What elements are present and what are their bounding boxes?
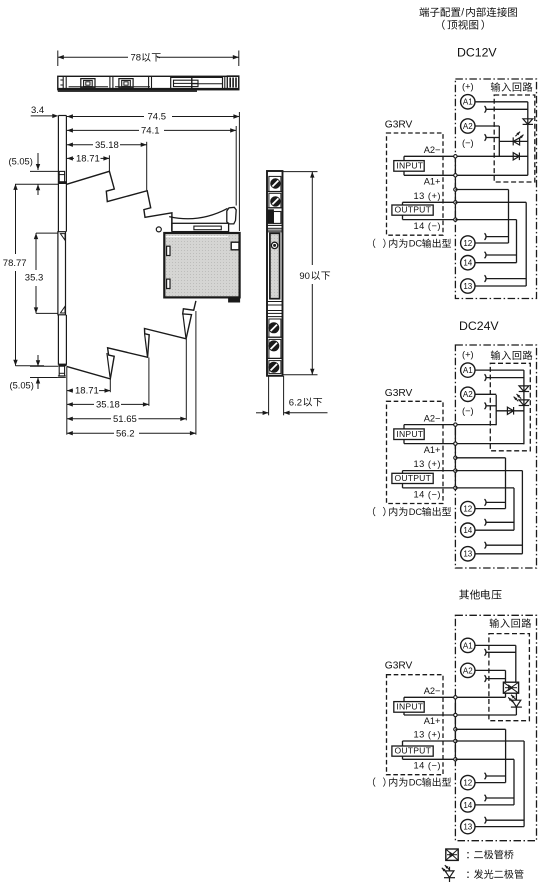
- junction dot: [454, 469, 457, 472]
- INPUT box: [394, 429, 424, 440]
- G3RV relay dashed box: [387, 675, 444, 775]
- junction dot: [454, 423, 457, 426]
- svg-text:A2: A2: [463, 666, 473, 675]
- svg-text:G3RV: G3RV: [385, 120, 413, 131]
- relay pin contact at terminal 13: [485, 542, 487, 549]
- svg-text:13 (+): 13 (+): [413, 730, 441, 740]
- svg-text:(−): (−): [462, 138, 474, 148]
- terminal 14: [461, 798, 475, 812]
- OUTPUT top lead: [402, 471, 404, 474]
- relay pin contact at terminal 14: [485, 252, 487, 259]
- relay pin contact at terminal 14: [485, 795, 487, 802]
- wire 13+: [403, 201, 456, 203]
- svg-text:35.3: 35.3: [25, 272, 44, 283]
- terminal A1: [461, 95, 475, 109]
- wire A1+: [404, 174, 455, 176]
- svg-text:A2−: A2−: [424, 145, 441, 155]
- G3RV relay dashed box: [387, 401, 444, 503]
- OUTPUT box: [392, 746, 433, 756]
- left vertical wire: [498, 126, 500, 156]
- dim 78.77: [3, 184, 58, 366]
- note: ( ) = DC output type: [373, 239, 451, 249]
- diode D2 (on A2- wire): [513, 153, 519, 160]
- wire A1 to circuit: [475, 101, 528, 103]
- junction dot: [454, 739, 457, 742]
- wire 14-: [403, 487, 456, 489]
- OUTPUT top lead: [402, 741, 404, 746]
- dim 74.1: [67, 126, 236, 206]
- diode D1: [519, 386, 529, 392]
- INPUT bottom lead: [403, 171, 405, 175]
- svg-text:A1+: A1+: [424, 445, 441, 455]
- svg-text:13: 13: [463, 550, 472, 559]
- svg-text:DC12V: DC12V: [457, 46, 497, 60]
- wire A2- into circuit: [455, 155, 527, 157]
- staircase inner riser lines: [107, 353, 110, 378]
- terminal 12: [461, 236, 475, 250]
- junction dot: [454, 155, 457, 158]
- contact wire 12: [486, 501, 506, 503]
- wire A1 to circuit: [475, 369, 524, 371]
- junction dot: [454, 758, 457, 761]
- svg-text:DC24V: DC24V: [459, 319, 499, 333]
- relay pin contact at terminal 13: [485, 817, 487, 824]
- svg-text:13: 13: [463, 282, 472, 291]
- svg-text:74.5: 74.5: [148, 112, 167, 123]
- wire 13+: [403, 470, 456, 472]
- svg-text:A1: A1: [463, 641, 473, 650]
- wire bus to terminal 12: [455, 728, 505, 730]
- terminal 12: [461, 501, 475, 515]
- terminal A2: [461, 387, 475, 401]
- wire bus to terminal 13: [455, 740, 524, 742]
- terminal 13: [461, 819, 475, 833]
- INPUT top lead: [403, 425, 405, 429]
- legend text: light emitting diode: [467, 869, 523, 878]
- wire LED to A1+: [515, 707, 517, 715]
- svg-text:OUTPUT: OUTPUT: [395, 473, 432, 483]
- bus line on box edge: [454, 425, 456, 488]
- svg-text:OUTPUT: OUTPUT: [395, 205, 432, 215]
- dim 18.71 upper: [67, 154, 110, 172]
- dim 3.4 plate thickness: [31, 105, 59, 118]
- relay pin contact at terminal 12: [485, 499, 487, 506]
- INPUT bottom lead: [403, 440, 405, 444]
- svg-text:A1+: A1+: [424, 716, 441, 726]
- relay pin contact for A1: [485, 649, 487, 656]
- dim 6.2 max: [256, 376, 328, 416]
- input circuit inner box (dashed) 输入回路: [490, 351, 532, 451]
- relay latch lever: [169, 207, 236, 231]
- upper terminal staircase: [67, 171, 172, 230]
- A2 branch vertical: [505, 670, 507, 682]
- svg-text:DC: DC: [409, 239, 423, 249]
- OUTPUT box: [392, 473, 433, 483]
- LED (horizontal, cathode left): [513, 132, 523, 146]
- svg-text:DC: DC: [409, 778, 423, 788]
- terminal 14: [461, 523, 475, 537]
- svg-text:14: 14: [463, 801, 472, 810]
- terminal A2: [461, 663, 475, 677]
- wire A1 contact: [486, 108, 528, 110]
- wire A1+: [404, 443, 455, 445]
- screw hole: [156, 227, 161, 232]
- svg-text:G3RV: G3RV: [385, 661, 413, 672]
- dim 56.2 lower: [67, 311, 196, 439]
- svg-text:(5.05): (5.05): [10, 381, 34, 391]
- wire A2 contact: [486, 137, 500, 139]
- terminal 13 wire: [475, 826, 524, 828]
- contact wire 13: [486, 278, 527, 280]
- relay pin contact at terminal 12: [485, 773, 487, 780]
- dim 35.18 upper: [67, 140, 147, 190]
- bus line on box edge: [454, 697, 456, 759]
- DIN rail plate: [58, 116, 67, 378]
- svg-text:12: 12: [463, 239, 472, 248]
- svg-text:INPUT: INPUT: [396, 702, 423, 712]
- terminal 14 wire: [475, 529, 514, 531]
- INPUT top lead: [403, 156, 405, 160]
- dim 90 max: [283, 172, 330, 375]
- input circuit inner box (dashed) 输入回路: [489, 618, 531, 720]
- svg-text:6.2: 6.2: [289, 397, 302, 408]
- DC12V outer terminal box (dash-dot): [455, 79, 536, 299]
- input circuit inner box (dashed) 输入回路: [491, 82, 535, 182]
- svg-text:13: 13: [463, 823, 472, 832]
- latch block (black): [267, 210, 283, 232]
- svg-text:18.71: 18.71: [76, 154, 100, 165]
- wire A1 contact: [486, 377, 524, 379]
- svg-text:13 (+): 13 (+): [413, 191, 441, 201]
- front view body: [267, 171, 283, 376]
- wire bus to terminal 14: [455, 219, 516, 221]
- terminal 12: [461, 775, 475, 789]
- junction dot: [454, 713, 457, 716]
- wire A2 to circuit: [475, 125, 499, 127]
- svg-text:18.71: 18.71: [75, 386, 99, 397]
- relay pin contact for A1: [485, 374, 487, 381]
- contact wire 14: [486, 797, 514, 799]
- svg-text:35.18: 35.18: [95, 140, 119, 151]
- svg-text:DC: DC: [409, 507, 423, 517]
- wire bridge to A2-: [505, 693, 507, 697]
- terminal 13: [461, 279, 475, 293]
- terminal 14 wire: [475, 262, 517, 264]
- right vertical wire: [523, 370, 525, 444]
- wire bus to terminal 12: [455, 189, 508, 191]
- svg-text:(−): (−): [462, 406, 474, 416]
- A1 branch vertical: [515, 645, 517, 682]
- legend: diode bridge symbol: [446, 849, 458, 860]
- dim 78 max: [58, 51, 239, 67]
- svg-text:14 (−): 14 (−): [413, 761, 441, 771]
- title: terminal arrangement / internal connections (top view): [419, 7, 516, 30]
- svg-text:(+): (+): [462, 350, 474, 360]
- terminal 12 wire: [475, 508, 506, 510]
- screw A1: [271, 179, 280, 188]
- junction dot: [454, 174, 457, 177]
- svg-text:A2−: A2−: [424, 686, 441, 696]
- INPUT box: [394, 161, 424, 172]
- svg-text:14: 14: [463, 259, 472, 268]
- wire bus to terminal 13: [455, 470, 522, 472]
- junction dot: [454, 486, 457, 489]
- svg-text:90: 90: [299, 271, 310, 282]
- svg-text:35.18: 35.18: [96, 400, 120, 411]
- dim 35.18 lower: [67, 358, 149, 411]
- OUTPUT box: [392, 205, 433, 215]
- svg-text:A2−: A2−: [424, 413, 441, 423]
- wire bus to terminal 14: [455, 487, 514, 489]
- contact wire 12: [486, 775, 506, 777]
- terminal 12 wire: [475, 782, 506, 784]
- diode D1 (on right vertical): [523, 119, 533, 125]
- wire A2 to circuit: [475, 393, 496, 395]
- relay pin contact for A2: [485, 134, 487, 141]
- wire bus to terminal 13: [455, 201, 526, 203]
- contact wire 14: [486, 521, 514, 523]
- terminal 14 wire: [475, 804, 514, 806]
- relay pin contact for A1: [485, 106, 487, 113]
- svg-text:INPUT: INPUT: [396, 429, 423, 439]
- wire A1+ into circuit: [455, 174, 527, 176]
- junction dot: [454, 442, 457, 445]
- terminal 13: [461, 547, 475, 561]
- legend text: diode bridge: [467, 850, 513, 859]
- wire A1 contact: [486, 651, 516, 653]
- svg-text:OUTPUT: OUTPUT: [395, 746, 432, 756]
- junction dot: [454, 218, 457, 221]
- wire A1 to circuit: [475, 644, 516, 646]
- screw A2: [271, 197, 280, 206]
- wire A2- into circuit: [455, 696, 505, 698]
- relay pin contact at terminal 14: [485, 519, 487, 526]
- svg-text:A1: A1: [463, 98, 473, 107]
- wire 14-: [403, 219, 456, 221]
- wire bus to terminal 12: [455, 457, 505, 459]
- LED (vertical, pointing down): [508, 695, 522, 707]
- dim 51.65 lower: [67, 339, 187, 425]
- LED wire: [499, 140, 528, 142]
- diode wire: [496, 410, 524, 412]
- INPUT bottom lead: [403, 712, 405, 715]
- svg-text:A1: A1: [463, 366, 473, 375]
- top view body: [58, 76, 239, 91]
- svg-text:51.65: 51.65: [113, 414, 137, 425]
- wire A1+ into circuit: [455, 443, 524, 445]
- screw terminal: [269, 341, 279, 351]
- left vertical wire: [495, 395, 497, 425]
- front gray strip (marking window): [270, 233, 280, 298]
- diode D2 (horizontal): [507, 407, 513, 414]
- G3RV relay dashed box: [387, 133, 444, 235]
- lower terminal staircase: [67, 301, 196, 379]
- svg-text:78: 78: [131, 53, 142, 64]
- contact wire 13: [486, 544, 523, 546]
- relay pin contact for A2: [485, 675, 487, 682]
- wire 14-: [403, 758, 456, 760]
- screw terminal: [269, 323, 279, 333]
- legend: LED symbol: [442, 865, 455, 882]
- relay pin contact at terminal 12: [485, 233, 487, 240]
- OUTPUT top lead: [402, 202, 404, 205]
- contact wire 12: [486, 236, 509, 238]
- dim (5.05) lower: [10, 355, 59, 391]
- wire A2 contact: [486, 678, 506, 680]
- dim 18.71 lower: [67, 379, 111, 397]
- screw terminal: [269, 362, 279, 372]
- title 其他电压: [459, 590, 501, 600]
- relay pin contact for A2: [485, 403, 487, 410]
- terminal A1: [461, 638, 475, 652]
- DC24V outer terminal box (dash-dot): [455, 345, 536, 568]
- lower section lines: [267, 302, 283, 374]
- bus line on box edge: [454, 156, 456, 219]
- wire A2- into circuit: [455, 424, 496, 426]
- svg-text:56.2: 56.2: [116, 428, 135, 439]
- OUTPUT bottom lead: [402, 215, 404, 219]
- svg-text:G3RV: G3RV: [385, 388, 413, 399]
- other-voltage outer terminal box (dash-dot): [455, 615, 536, 840]
- svg-text:14: 14: [463, 526, 472, 535]
- relay pin contact at terminal 13: [485, 275, 487, 282]
- note: ( ) = DC output type: [373, 777, 451, 787]
- svg-text:78.77: 78.77: [3, 258, 27, 269]
- terminal 13 wire: [475, 285, 526, 287]
- svg-text:A1+: A1+: [424, 177, 441, 187]
- wire A1+ into circuit: [455, 714, 516, 716]
- wire A1+: [404, 714, 455, 716]
- svg-text:14 (−): 14 (−): [413, 221, 441, 231]
- wire A2-: [404, 696, 455, 698]
- svg-text:3.4: 3.4: [31, 105, 44, 116]
- wire bridge to LED: [515, 693, 517, 700]
- junction dot: [454, 696, 457, 699]
- INPUT box: [394, 702, 424, 713]
- diode bridge: [503, 682, 518, 693]
- wire A2-: [404, 424, 455, 426]
- note: ( ) = DC output type: [373, 507, 451, 517]
- wire 13+: [403, 740, 456, 742]
- junction dot: [454, 728, 457, 731]
- svg-text:(+): (+): [462, 81, 474, 91]
- terminal A2: [461, 119, 475, 133]
- dim 35.3: [25, 233, 58, 313]
- contact wire 13: [486, 819, 524, 821]
- OUTPUT bottom lead: [402, 484, 404, 488]
- dim 74.5: [67, 112, 240, 231]
- svg-text:/: /: [461, 8, 464, 19]
- junction dot: [454, 201, 457, 204]
- svg-text:12: 12: [463, 505, 472, 514]
- junction dot: [454, 456, 457, 459]
- wire A2 to circuit: [475, 669, 506, 671]
- dim (5.05) upper: [9, 153, 59, 195]
- svg-text:INPUT: INPUT: [396, 161, 423, 171]
- svg-text:74.1: 74.1: [141, 126, 160, 137]
- svg-text:A2: A2: [463, 390, 473, 399]
- junction dot: [454, 188, 457, 191]
- terminal 12 wire: [475, 242, 509, 244]
- contact wire 14: [486, 254, 517, 256]
- terminal A1: [461, 363, 475, 377]
- svg-text:12: 12: [463, 779, 472, 788]
- relay body (gray): [164, 233, 239, 302]
- OUTPUT bottom lead: [402, 756, 404, 759]
- svg-text:A2: A2: [463, 122, 473, 131]
- svg-text:(5.05): (5.05): [9, 157, 33, 167]
- terminal 14: [461, 256, 475, 270]
- svg-text:13 (+): 13 (+): [413, 459, 441, 469]
- wire A2-: [404, 155, 455, 157]
- wire bus to terminal 14: [455, 758, 514, 760]
- terminal 13 wire: [475, 553, 522, 555]
- LED (vertical, pointing down): [514, 394, 530, 406]
- wire A2 contact: [486, 405, 497, 407]
- INPUT top lead: [403, 697, 405, 701]
- right vertical wire: [527, 102, 529, 176]
- svg-text:14 (−): 14 (−): [413, 489, 441, 499]
